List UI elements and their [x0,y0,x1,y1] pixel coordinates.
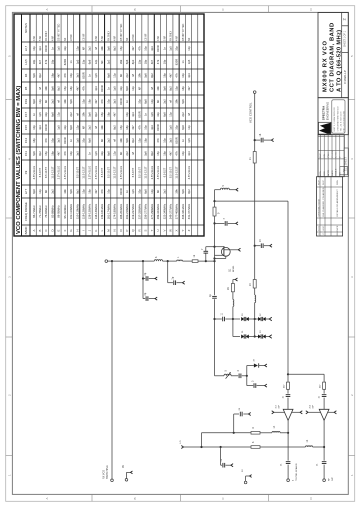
wire: feedback row y=447 [184,446,252,448]
svg-text:1p5: 1p5 [57,46,61,51]
svg-text:NF: NF [100,60,104,64]
svg-text:3rd: 3rd [275,406,277,409]
wire [254,163,256,280]
svg-text:3p3: 3p3 [38,125,42,130]
svg-text:11.5-13.5T: 11.5-13.5T [113,166,117,179]
svg-text:CCT DIAGRAM, BAND: CCT DIAGRAM, BAND [330,22,336,92]
svg-text:1p5: 1p5 [169,46,173,51]
varactor D5/D6 pair [241,335,244,339]
svg-text:4-02: 4-02 [323,226,325,231]
junction [213,318,215,320]
svg-text:3p3: 3p3 [187,73,191,78]
svg-text:15p: 15p [175,86,179,91]
svg-text:18p: 18p [162,73,166,78]
svg-text:5p6: 5p6 [125,138,129,143]
svg-text:O/P: O/P [332,477,334,481]
svg-text:10p: 10p [32,125,36,130]
svg-text:12p: 12p [94,59,98,64]
wire: Q1 drain [224,249,230,251]
wire [201,433,203,447]
node: RX VCO SWITCHING input terminal [111,479,114,482]
svg-text:3p3: 3p3 [187,151,191,156]
svg-text:4.5T+SLUG: 4.5T+SLUG [156,166,160,180]
svg-text:MJP: MJP [318,180,320,185]
svg-text:820R: 820R [175,59,179,65]
svg-text:8p2: 8p2 [169,86,173,91]
capacitor C3 2p stub [143,298,145,300]
svg-text:2p2: 2p2 [69,112,73,117]
svg-text:39k: 39k [44,86,48,91]
svg-text:R6: R6 [24,73,28,77]
resistor R1 1k [192,260,198,263]
svg-text:15-4-02: 15-4-02 [332,149,334,157]
svg-text:MX800 RX VCO: MX800 RX VCO [323,40,329,92]
svg-text:47k: 47k [100,189,104,194]
svg-text:12p: 12p [75,46,79,51]
wire [198,260,215,262]
wire [323,420,325,460]
capacitor C24b stub [220,447,222,465]
svg-text:8.5-10.5T: 8.5-10.5T [137,167,141,178]
junction [213,200,215,202]
svg-text:39k: 39k [119,138,123,143]
svg-text:10p: 10p [181,73,185,78]
svg-text:8p2: 8p2 [150,151,154,156]
svg-text:174-188MHz: 174-188MHz [113,203,117,219]
svg-text:E: E [57,229,61,231]
svg-text:2.5T+SLUG: 2.5T+SLUG [150,166,154,180]
capacitor C18 stub [255,139,261,141]
svg-text:4.5T+SLUG: 4.5T+SLUG [32,166,36,180]
svg-text:33p: 33p [82,138,86,143]
svg-text:1p5: 1p5 [94,151,98,156]
junction [287,373,289,375]
svg-text:3p3: 3p3 [38,46,42,51]
svg-text:MJP: MJP [320,153,322,158]
svg-text:39k: 39k [63,99,67,104]
svg-text:47k: 47k [156,59,160,64]
svg-text:10p: 10p [50,138,54,143]
svg-text:12p: 12p [131,86,135,91]
capacitor C21 series [286,461,291,463]
junction [167,260,169,262]
svg-text:820R: 820R [156,124,160,130]
svg-text:4 NF: 4 NF [34,35,36,41]
svg-text:X: X [175,229,179,231]
svg-text:MJP: MJP [323,180,325,185]
wire [254,303,256,338]
svg-text:DRN: DRN [337,180,339,185]
svg-text:8p2: 8p2 [131,138,135,143]
varactor D1/D2 pair [241,317,244,321]
svg-text:UNIT 3, 21 WALTERS DR: UNIT 3, 21 WALTERS DR [333,107,336,131]
svg-text:47k: 47k [175,73,179,78]
svg-text:2.5T+SLUG: 2.5T+SLUG [88,166,92,180]
svg-text:15p: 15p [137,59,141,64]
svg-text:12p: 12p [150,99,154,104]
junction [205,260,207,262]
junction [254,335,256,337]
svg-text:4 NF: 4 NF [115,35,117,41]
svg-text:11.5-13.5T: 11.5-13.5T [144,166,148,179]
svg-text:6p8: 6p8 [162,112,166,117]
svg-text:RX ONLY: RX ONLY [108,30,110,40]
svg-text:820R: 820R [100,85,104,91]
svg-text:NF: NF [119,151,123,155]
svg-text:95-102MHz: 95-102MHz [63,204,67,219]
svg-text:C15: C15 [24,124,28,130]
svg-text:18p: 18p [50,151,54,156]
wire: supply rail y=201 [215,200,289,202]
svg-text:1p5: 1p5 [169,125,173,130]
svg-text:102-110MHz: 102-110MHz [69,203,73,219]
svg-text:12p: 12p [169,112,173,117]
svg-text:820R: 820R [156,45,160,51]
svg-text:A: A [45,497,49,499]
svg-text:15p: 15p [119,46,123,51]
svg-text:15p: 15p [82,99,86,104]
wire [248,318,258,320]
svg-text:R5: R5 [24,86,28,90]
svg-text:8p2: 8p2 [187,189,191,194]
svg-text:n/f: n/f [94,47,98,50]
capacitor C7b stub y=223 [215,222,225,224]
svg-text:1p5: 1p5 [131,189,135,194]
svg-text:1p5: 1p5 [75,59,79,64]
svg-text:4 NF: 4 NF [177,35,179,41]
inductor L12 [306,446,313,447]
svg-text:4.5T+SLUG: 4.5T+SLUG [63,166,67,180]
svg-text:18p: 18p [181,86,185,91]
svg-text:R: R [137,229,141,231]
svg-text:10p: 10p [32,46,36,51]
svg-text:8.5-10.5T: 8.5-10.5T [44,167,48,178]
svg-text:820R: 820R [119,188,123,194]
svg-text:6p8: 6p8 [181,125,185,130]
svg-text:149-161MHz: 149-161MHz [100,203,104,219]
svg-text:10p: 10p [162,59,166,64]
inductor L6 [154,260,162,261]
svg-text:C19: C19 [24,98,28,104]
svg-text:C9 N/F: C9 N/F [84,33,86,41]
capacitor C22 series [322,461,327,463]
svg-text:C13: C13 [24,137,28,143]
svg-text:B: B [38,229,42,231]
svg-text:ENGINEERING: ENGINEERING [325,102,329,120]
svg-text:4k7: 4k7 [94,99,98,104]
svg-text:R41 CHANGED, C24 ADDED: R41 CHANGED, C24 ADDED [322,187,325,216]
svg-text:1p5: 1p5 [38,112,42,117]
svg-text:n/f: n/f [150,87,154,90]
capacitor C31 1n [287,389,289,393]
wire [260,446,306,448]
svg-text:n/f: n/f [169,100,173,103]
svg-text:8p2: 8p2 [113,125,117,130]
junction [213,257,215,259]
svg-text:10p: 10p [106,189,110,194]
wire: resonator vertical x=214.5 [214,190,216,296]
svg-text:299-323MHz: 299-323MHz [156,203,160,219]
resistor R26 [231,284,234,292]
svg-text:FAX +61 8 9318 4488: FAX +61 8 9318 4488 [343,110,346,131]
resistor R9 [213,207,216,216]
svg-text:n/f: n/f [94,126,98,129]
svg-text:2.5T+SLUG: 2.5T+SLUG [57,166,61,180]
node: TP1 terminal [105,260,108,263]
svg-text:8p2: 8p2 [131,59,135,64]
svg-text:C11: C11 [24,151,28,156]
svg-text:128-138MHz: 128-138MHz [88,203,92,219]
svg-text:237-256MHz: 237-256MHz [137,203,141,219]
svg-text:18p: 18p [69,86,73,91]
svg-text:188-203MHz: 188-203MHz [119,203,123,219]
svg-text:10p: 10p [50,59,54,64]
diode D9 stub [246,366,248,376]
node: +9V supply terminal [233,279,235,281]
svg-text:820R: 820R [44,45,48,51]
svg-text:8p2: 8p2 [113,46,117,51]
wire [265,318,269,320]
svg-text:4k7: 4k7 [57,151,61,156]
svg-text:33p: 33p [175,125,179,130]
svg-text:5 NF: 5 NF [164,35,166,41]
inductor L5 top stub [215,189,221,191]
svg-text:8.5-10.5T: 8.5-10.5T [169,167,173,178]
junction [213,246,215,248]
svg-text:SCALE: SCALE [335,168,338,176]
svg-text:5p6: 5p6 [106,46,110,51]
svg-text:4k7: 4k7 [57,73,61,78]
varactor D3/D4 pair [258,317,261,321]
svg-text:1n: 1n [181,139,185,142]
junction [200,446,202,448]
transistor Q1 dual-gate FET [221,247,230,256]
svg-text:N: N [113,229,117,231]
svg-text:11.5-13.5T: 11.5-13.5T [175,166,179,179]
svg-text:RX VCO: RX VCO [103,470,106,479]
svg-text:39k: 39k [137,73,141,78]
junction [254,139,256,141]
svg-text:NOTES: NOTES [24,23,28,33]
svg-text:4k7: 4k7 [169,73,173,78]
svg-text:PWH: PWH [328,152,330,158]
svg-text:47k: 47k [137,46,141,51]
wire [183,260,193,262]
junction [233,432,235,434]
svg-text:1n: 1n [88,74,92,77]
svg-text:6p8: 6p8 [144,99,148,104]
svg-text:15p: 15p [137,138,141,143]
svg-text:2p2: 2p2 [88,125,92,130]
svg-text:8p2: 8p2 [150,73,154,78]
svg-text:NF: NF [44,189,48,193]
svg-text:L8 N/F: L8 N/F [133,33,135,40]
svg-text:5p6: 5p6 [88,112,92,117]
svg-text:8p2: 8p2 [94,112,98,117]
svg-text:5 NF: 5 NF [102,35,104,41]
svg-text:L2 T: L2 T [24,188,28,194]
svg-text:4k7: 4k7 [150,59,154,64]
svg-text:6p8: 6p8 [50,112,54,117]
svg-text:47k: 47k [63,151,67,156]
wire [265,336,269,338]
svg-text:4k7: 4k7 [131,125,135,130]
svg-text:47k: 47k [44,138,48,143]
svg-text:NF: NF [119,73,123,77]
svg-text:5p6: 5p6 [50,86,54,91]
svg-text:6p8: 6p8 [32,99,36,104]
svg-text:10p: 10p [144,125,148,130]
svg-text:1p5: 1p5 [187,59,191,64]
svg-text:88-95MHz: 88-95MHz [57,205,61,218]
node: prescaler output terminal [287,465,289,479]
svg-text:6p8: 6p8 [106,73,110,78]
svg-text:CCT. SHEET: CCT. SHEET [345,157,348,171]
svg-text:6p8: 6p8 [69,125,73,130]
svg-text:5p6: 5p6 [32,73,36,78]
svg-text:219-237MHz: 219-237MHz [131,203,135,219]
svg-text:6p8: 6p8 [144,189,148,194]
svg-text:5p6: 5p6 [144,73,148,78]
svg-text:10p: 10p [144,46,148,51]
svg-text:6p8: 6p8 [88,59,92,64]
svg-text:33p: 33p [119,86,123,91]
svg-text:33p: 33p [100,151,104,156]
svg-text:VCO COMPONENT VALUES (SWITCHIN: VCO COMPONENT VALUES (SWITCHING BW = MAX… [16,86,22,234]
svg-text:4k7: 4k7 [94,189,98,194]
junction [254,245,256,247]
svg-text:L6,7: L6,7 [24,45,28,51]
svg-text:33p: 33p [63,125,67,130]
svg-text:10p: 10p [69,73,73,78]
resistor R41 4k7 [287,382,290,389]
junction [287,432,289,434]
svg-text:12p: 12p [57,112,61,117]
svg-text:NF: NF [100,138,104,142]
svg-text:1n: 1n [125,100,129,103]
op-amp U1b buffer [319,409,329,420]
svg-text:82-88MHz: 82-88MHz [50,205,54,218]
capacitor C4 2p stub [167,261,169,283]
svg-text:C: C [44,229,48,231]
svg-text:4 NF: 4 NF [96,35,98,41]
svg-text:2p2: 2p2 [106,138,110,143]
svg-text:BF981: BF981 [233,265,235,272]
svg-text:K: K [94,229,98,231]
svg-text:1n: 1n [106,87,110,90]
inductor L1 [177,260,183,261]
svg-text:4k7: 4k7 [131,46,135,51]
svg-text:2p2: 2p2 [162,189,166,194]
junction [111,260,113,262]
svg-text:n/f: n/f [113,139,117,142]
svg-text:1n: 1n [125,190,129,193]
wire [260,432,272,434]
svg-text:1n: 1n [144,113,148,116]
border zone ticks [91,6,93,13]
svg-text:VCO CONTROL: VCO CONTROL [248,102,252,123]
svg-text:2p2: 2p2 [125,73,129,78]
svg-text:12p: 12p [38,189,42,194]
svg-text:18p: 18p [32,138,36,143]
svg-text:47k: 47k [63,73,67,78]
svg-text:47k: 47k [137,125,141,130]
inductor L14 [272,431,280,432]
svg-text:39k: 39k [119,59,123,64]
svg-text:6.5-8.5T: 6.5-8.5T [162,167,166,177]
svg-text:277-299MHz: 277-299MHz [150,203,154,219]
resistor R21 [253,152,256,164]
svg-text:NF: NF [44,99,48,103]
svg-text:1p5: 1p5 [94,73,98,78]
wire: switching rail vertical [111,261,113,479]
node: 0V terminal mid [244,481,247,484]
svg-text:3p3: 3p3 [94,86,98,91]
capacitor C33 1n [323,389,325,393]
svg-text:15p: 15p [82,189,86,194]
capacitor C11 series [222,317,224,322]
svg-text:18p: 18p [162,151,166,156]
svg-text:15p: 15p [119,125,123,130]
svg-text:4k7: 4k7 [187,86,191,91]
svg-text:10p: 10p [106,99,110,104]
wire [163,260,168,262]
wire: varactor row 1 [215,318,222,320]
svg-text:119-128MHz: 119-128MHz [82,203,86,219]
capacitor C30 stub [246,376,248,386]
svg-text:ORIGINAL ISSUE: ORIGINAL ISSUE [317,198,320,216]
svg-text:3p3: 3p3 [75,151,79,156]
svg-text:5p6: 5p6 [32,151,36,156]
svg-text:3p3: 3p3 [75,73,79,78]
svg-text:1p5: 1p5 [150,112,154,117]
junction [220,446,222,448]
svg-text:39k: 39k [175,99,179,104]
svg-text:66-71MHz: 66-71MHz [32,205,36,218]
svg-text:Y: Y [181,229,185,231]
svg-text:n/f: n/f [131,74,135,77]
svg-text:47k: 47k [175,151,179,156]
svg-text:n/f: n/f [187,113,191,116]
svg-text:349-377MHz: 349-377MHz [169,203,173,219]
capacitor C24 stub [255,245,261,247]
svg-text:15p: 15p [44,151,48,156]
svg-text:NF: NF [156,99,160,103]
svg-text:4 NF: 4 NF [158,35,160,41]
svg-text:820R: 820R [44,124,48,130]
svg-text:1n: 1n [181,60,185,63]
svg-text:12p: 12p [187,125,191,130]
svg-text:820R: 820R [175,137,179,143]
svg-text:OSBORNE PARK WA 6017: OSBORNE PARK WA 6017 [336,105,339,131]
junction [254,318,256,320]
svg-text:3p3: 3p3 [131,112,135,117]
svg-text:820R: 820R [137,111,141,117]
svg-text:8.5-10.5T: 8.5-10.5T [75,167,79,178]
svg-text:4.5T+SLUG: 4.5T+SLUG [187,166,191,180]
svg-text:3p3: 3p3 [150,125,154,130]
svg-text:F: F [63,229,67,231]
svg-text:8p2: 8p2 [38,73,42,78]
svg-text:SHEET 1 OF 1: SHEET 1 OF 1 [344,30,347,47]
svg-text:15p: 15p [63,86,67,91]
svg-text:33p: 33p [82,59,86,64]
svg-text:33p: 33p [137,99,141,104]
svg-text:76-82MHz: 76-82MHz [44,205,48,218]
svg-text:441-477MHz: 441-477MHz [187,203,191,219]
wire: buffer feed vertical x=288 [287,201,289,382]
node: RF output terminal [323,465,325,479]
